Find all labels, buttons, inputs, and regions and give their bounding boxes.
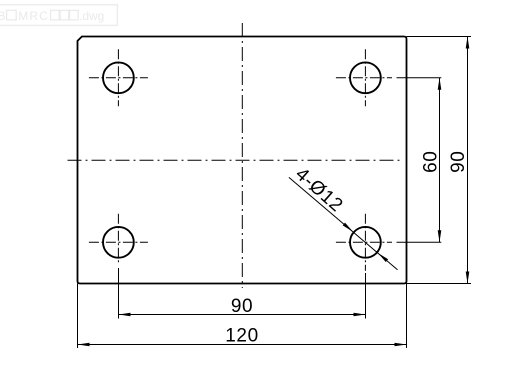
svg-text:B: B (0, 9, 6, 23)
hole top-left (103, 62, 134, 93)
center lines of hole top-left (89, 77, 148, 79)
center lines of hole top-right (336, 77, 392, 79)
leader arrowhead lower (points at hole edge) (378, 253, 388, 262)
extension line below bottom-right corner (dim 120) (406, 284, 408, 349)
leader arrowhead upper (points at hole edge) (343, 223, 353, 232)
svg-text:120: 120 (225, 326, 259, 347)
dimension line 90 (bottom, horizontal) (119, 314, 366, 316)
horizontal center line of plate (68, 159, 404, 161)
vertical center line of plate (241, 23, 243, 288)
svg-text:MRC: MRC (18, 9, 49, 23)
extension line right of bottom-right hole (dim 60) (397, 241, 442, 243)
plate outline (120 x 90 rectangle) (78, 37, 407, 284)
svg-text:60: 60 (421, 151, 442, 173)
hole bottom-right (350, 227, 381, 258)
dimension line 90 (right, vertical) (467, 37, 469, 284)
extension line right of top-right hole (dim 60) (397, 77, 442, 79)
extension line below bottom-left hole (dim 90 bottom) (118, 268, 120, 319)
svg-text:90: 90 (231, 296, 253, 317)
file-name tab "B型MRC活動輪.dwg" (very light gray, top-left) (0, 5, 117, 26)
leader line 4-Ø12 through bottom-right hole (289, 177, 398, 269)
extension line below bottom-left corner (dim 120) (77, 284, 79, 349)
svg-text:90: 90 (448, 151, 469, 173)
hole bottom-left (103, 227, 134, 258)
hole top-right (350, 62, 381, 93)
center lines of hole bottom-left (89, 241, 148, 243)
extension line top edge (dim 90 right) (407, 36, 472, 38)
dimension line 60 (right, vertical) (439, 78, 441, 243)
center lines of hole bottom-right (336, 241, 392, 243)
dimension line 120 (bottom, horizontal) (78, 344, 407, 346)
extension line bottom edge (dim 90 right) (407, 283, 472, 285)
extension line below bottom-right hole (dim 90 bottom) (365, 273, 367, 319)
svg-text:.dwg: .dwg (79, 9, 104, 23)
